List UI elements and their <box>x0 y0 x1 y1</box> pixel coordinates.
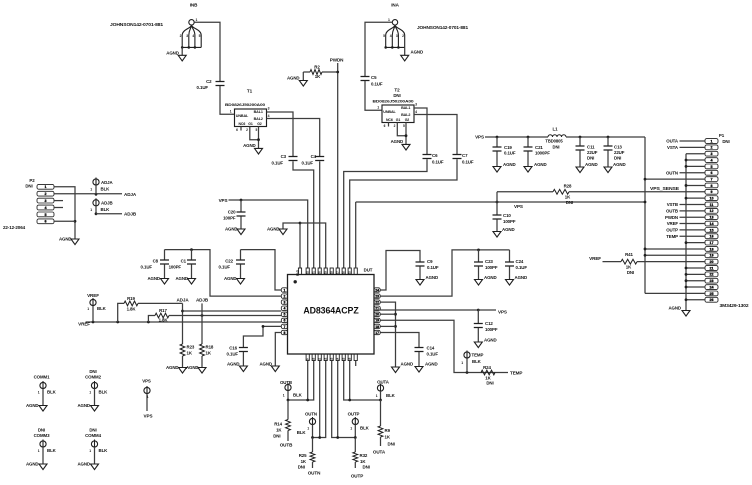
ground AGND (PAD) <box>279 229 287 235</box>
resistor R17 1.8K <box>148 316 155 323</box>
svg-text:AGND: AGND <box>287 76 300 81</box>
svg-text:AGND: AGND <box>26 403 39 408</box>
svg-text:22UF: 22UF <box>614 150 625 155</box>
svg-text:AGND: AGND <box>515 275 528 280</box>
svg-text:AGND: AGND <box>224 276 237 281</box>
wire C2 to T1 pin1 <box>220 86 235 114</box>
resistor R24 1K (DNI) <box>481 370 495 375</box>
capacitor C11 22UF (DNI) <box>579 137 581 146</box>
svg-text:BLK: BLK <box>99 390 109 395</box>
svg-text:0.1UF: 0.1UF <box>427 352 439 357</box>
svg-text:AGND: AGND <box>77 462 90 467</box>
svg-text:COMM4: COMM4 <box>85 433 102 438</box>
testpoint OUTN <box>309 418 315 424</box>
svg-text:R19: R19 <box>127 296 135 301</box>
svg-text:AGND: AGND <box>613 162 626 167</box>
svg-text:4: 4 <box>415 110 417 114</box>
svg-text:18: 18 <box>710 247 714 251</box>
svg-text:2: 2 <box>45 192 47 196</box>
svg-text:AGND: AGND <box>59 237 72 242</box>
svg-text:20: 20 <box>710 260 714 264</box>
svg-text:20: 20 <box>375 313 379 317</box>
svg-text:11: 11 <box>710 203 714 207</box>
svg-text:P2: P2 <box>29 178 35 183</box>
wire P1 pin5 to bus <box>686 165 705 167</box>
wire T2 BAL2 to C7 <box>414 115 457 155</box>
svg-text:BAL1: BAL1 <box>401 106 410 110</box>
svg-text:INA: INA <box>391 3 399 8</box>
svg-text:1000PF: 1000PF <box>535 151 550 156</box>
ground AGND (C22) <box>240 264 242 278</box>
svg-text:19: 19 <box>375 319 379 323</box>
svg-text:0.1UF: 0.1UF <box>504 151 516 156</box>
svg-text:AGND: AGND <box>166 365 179 370</box>
svg-text:OUTA: OUTA <box>373 450 386 455</box>
transformer T2 BD0826J50200A00 (DNI) <box>382 105 414 123</box>
inductor L1 TBD0805 (DNI) <box>548 135 566 137</box>
capacitor C12 100PF <box>477 310 479 323</box>
resistor R19 1.8K <box>118 303 124 322</box>
svg-text:3: 3 <box>396 34 398 38</box>
svg-text:BAL2: BAL2 <box>401 113 410 117</box>
svg-text:R9: R9 <box>385 428 391 433</box>
wire VPS rail <box>485 136 548 138</box>
svg-text:C8: C8 <box>153 259 159 264</box>
capacitor C9 0.1UF <box>416 262 425 266</box>
svg-text:100PF: 100PF <box>169 265 182 270</box>
resistor R28 1K (DNI) <box>497 191 553 193</box>
svg-text:VPS_SENSE: VPS_SENSE <box>650 186 679 191</box>
svg-text:2: 2 <box>711 146 713 150</box>
svg-text:OUTA: OUTA <box>666 139 679 144</box>
svg-text:DNI: DNI <box>614 156 621 161</box>
svg-text:AGND: AGND <box>225 227 238 232</box>
svg-text:0.1UF: 0.1UF <box>219 265 231 270</box>
svg-text:1: 1 <box>388 18 390 22</box>
capacitor C4 0.1UF <box>315 157 324 161</box>
capacitor C21 1000PF <box>527 137 529 147</box>
svg-text:100PF: 100PF <box>485 327 498 332</box>
resistor R25 1K (DNI) <box>312 438 314 453</box>
svg-text:C14: C14 <box>427 346 435 351</box>
wire ADJA to DUT pin4 <box>183 310 282 312</box>
svg-text:C7: C7 <box>462 153 468 158</box>
ground AGND (C23) <box>478 266 480 279</box>
svg-text:R17: R17 <box>159 308 167 313</box>
svg-text:AGND: AGND <box>259 362 272 367</box>
svg-text:1K: 1K <box>187 351 193 356</box>
svg-text:AGND: AGND <box>391 139 404 144</box>
resistor R23 1K <box>180 344 185 356</box>
svg-text:3: 3 <box>711 152 713 156</box>
svg-text:OUTA: OUTA <box>377 380 390 385</box>
svg-text:DNI: DNI <box>388 442 395 447</box>
svg-text:AGND: AGND <box>267 227 280 232</box>
svg-text:3: 3 <box>186 34 188 38</box>
capacitor C20 100PF <box>240 200 242 212</box>
svg-text:OUTB: OUTB <box>280 443 293 448</box>
wire P1 pin25 to VPS column <box>645 292 705 294</box>
svg-text:C10: C10 <box>503 213 511 218</box>
capacitor C10 100PF <box>496 201 499 204</box>
svg-text:L1: L1 <box>553 127 559 132</box>
wire P1 pin21 to bus <box>686 267 705 269</box>
ground AGND (C1) <box>191 264 193 278</box>
svg-text:5: 5 <box>45 213 47 217</box>
svg-text:BLK: BLK <box>47 390 57 395</box>
wire P1 ground bus <box>685 154 687 311</box>
svg-text:OUTP: OUTP <box>351 474 363 479</box>
svg-text:21: 21 <box>375 307 379 311</box>
ground AGND (C19) <box>496 151 498 166</box>
wire P2 pin1 bus <box>54 187 75 239</box>
wire L1 to P1 column <box>566 136 645 138</box>
svg-text:C4: C4 <box>311 154 317 159</box>
svg-text:1: 1 <box>377 105 379 109</box>
ground AGND (C12) <box>477 328 479 342</box>
ground AGND (C8) <box>164 264 166 278</box>
wire DUT pin1 to C22 <box>241 250 282 290</box>
ground AGND (P1) <box>682 311 690 317</box>
svg-text:3: 3 <box>268 107 270 111</box>
svg-text:C2: C2 <box>206 79 212 84</box>
svg-text:C21: C21 <box>535 145 543 150</box>
wire P1 pin19 <box>645 254 705 256</box>
svg-text:G1: G1 <box>396 118 401 122</box>
wire DUT pin19 to TEMP <box>380 320 508 372</box>
testpoint TEMP <box>464 352 470 358</box>
svg-text:2: 2 <box>180 34 182 38</box>
svg-text:BD0826J50200A00: BD0826J50200A00 <box>373 98 415 103</box>
svg-text:4: 4 <box>192 34 194 38</box>
wire INA to C5 <box>365 22 392 76</box>
wire DUT pin2 to C8/C1 <box>165 250 282 297</box>
wire DUT pin stub <box>355 361 357 367</box>
svg-text:OUTN: OUTN <box>305 412 317 417</box>
svg-text:BAL2: BAL2 <box>254 117 263 121</box>
svg-text:OUTP: OUTP <box>666 228 678 233</box>
svg-text:0.1UF: 0.1UF <box>141 265 153 270</box>
svg-text:1: 1 <box>283 288 285 292</box>
svg-text:DNI: DNI <box>627 270 634 275</box>
svg-text:C20: C20 <box>228 210 236 215</box>
svg-text:ADJB: ADJB <box>124 212 137 217</box>
svg-text:0.1UF: 0.1UF <box>197 85 209 90</box>
wire DUT pin17 to C14 <box>380 333 419 348</box>
wire T2 BAL1 to C6 <box>414 108 427 154</box>
ground AGND (C13) <box>607 150 609 167</box>
svg-text:0.1UF: 0.1UF <box>432 160 444 165</box>
svg-text:COMM1: COMM1 <box>34 375 51 380</box>
wire DUT pin22 to AGND column <box>380 302 395 367</box>
svg-text:DNI: DNI <box>553 145 560 150</box>
svg-text:OUTB: OUTB <box>666 208 678 213</box>
svg-text:AGND: AGND <box>186 365 199 370</box>
ground AGND (T1) <box>255 148 263 154</box>
wire DUT pins 11,12 to OUTN <box>319 361 321 438</box>
svg-text:17: 17 <box>710 241 714 245</box>
svg-text:21: 21 <box>710 266 714 270</box>
ground AGND (pin8) <box>271 366 279 372</box>
svg-text:BD0826J50200A00: BD0826J50200A00 <box>225 102 266 107</box>
svg-text:1: 1 <box>461 361 463 365</box>
svg-text:3M3429-1302: 3M3429-1302 <box>720 303 750 308</box>
wire DUT pins 9,10 to OUTB <box>307 361 309 401</box>
wire VPS column to DUT top <box>644 137 646 293</box>
svg-text:BLK: BLK <box>472 359 482 364</box>
wire P2 pin4 stub <box>54 207 63 209</box>
wire P1 pin24 to bus <box>686 286 705 288</box>
svg-text:1K: 1K <box>315 74 321 79</box>
svg-text:AGND: AGND <box>401 362 414 367</box>
svg-text:12: 12 <box>710 209 714 213</box>
svg-text:P1: P1 <box>719 133 725 138</box>
svg-text:DNI: DNI <box>393 93 400 98</box>
DUT left pins 1-8 <box>281 288 287 292</box>
wire DUT PAD to AGND <box>283 223 300 269</box>
wire INB to C2 <box>194 22 220 81</box>
svg-text:AGND: AGND <box>77 403 90 408</box>
svg-text:R25: R25 <box>299 453 307 458</box>
wire T1 BAL1 to C3 <box>267 112 294 156</box>
capacitor C2 0.1UF <box>216 82 225 86</box>
svg-text:T2: T2 <box>394 88 400 93</box>
DUT top pins 32-25 <box>306 268 309 275</box>
svg-text:VPS: VPS <box>475 135 484 140</box>
svg-text:6: 6 <box>45 220 47 224</box>
svg-text:UNBAL: UNBAL <box>236 114 249 118</box>
wire PWDN to DUT <box>337 63 339 269</box>
wire P1 pin10 to bus <box>686 197 705 199</box>
svg-text:22-12-2064: 22-12-2064 <box>3 225 26 230</box>
svg-text:R23: R23 <box>187 345 195 350</box>
svg-text:1K: 1K <box>276 428 282 433</box>
testpoint ADJB <box>93 200 99 206</box>
svg-text:NC6: NC6 <box>386 118 393 122</box>
svg-text:C11: C11 <box>587 145 595 150</box>
capacitor C23 100PF <box>478 250 480 262</box>
wire P1 pin8 to bus <box>686 184 705 186</box>
svg-text:ADJA: ADJA <box>101 180 113 185</box>
connector INA (SMA) <box>392 20 397 25</box>
svg-text:1.8K: 1.8K <box>159 318 169 323</box>
svg-text:DNI: DNI <box>273 434 280 439</box>
svg-text:26: 26 <box>710 298 714 302</box>
svg-text:10: 10 <box>710 197 714 201</box>
DUT right pins 24-17 <box>374 288 380 292</box>
capacitor C19 0.1UF <box>496 137 498 147</box>
svg-text:C16: C16 <box>229 346 237 351</box>
wire P1 pin18 <box>645 248 705 250</box>
ground AGND (R23) <box>182 356 184 368</box>
svg-text:7: 7 <box>283 325 285 329</box>
svg-text:0.1UF: 0.1UF <box>371 82 383 87</box>
svg-text:C12: C12 <box>485 321 493 326</box>
wire ADJB <box>201 303 203 344</box>
svg-text:0.1UF: 0.1UF <box>272 161 284 166</box>
svg-text:AGND: AGND <box>484 338 497 343</box>
wire C5 to T2 pin1 <box>365 81 382 110</box>
ground AGND (C14) <box>418 352 420 367</box>
svg-text:R28: R28 <box>564 184 572 189</box>
svg-text:ADJB: ADJB <box>101 201 113 206</box>
capacitor C16 0.1UF <box>239 348 248 352</box>
svg-text:AGND: AGND <box>668 306 681 311</box>
capacitor C22 0.1UF <box>240 250 242 260</box>
svg-text:2: 2 <box>283 294 285 298</box>
wire DUT pin18 stub <box>380 325 395 327</box>
wire P1 pin26 to bus <box>686 299 705 301</box>
svg-text:24: 24 <box>375 288 379 292</box>
svg-text:1K: 1K <box>626 265 632 270</box>
svg-text:1: 1 <box>230 109 232 113</box>
svg-text:0.1UF: 0.1UF <box>516 265 528 270</box>
svg-text:R2: R2 <box>314 64 320 69</box>
svg-text:VPS: VPS <box>142 379 151 384</box>
ground AGND (C24) <box>509 266 511 279</box>
svg-text:7: 7 <box>711 177 713 181</box>
svg-text:1: 1 <box>376 394 378 398</box>
svg-text:OUTN: OUTN <box>666 170 678 175</box>
svg-text:22: 22 <box>375 300 379 304</box>
svg-text:TEMP: TEMP <box>472 353 484 358</box>
svg-text:1K: 1K <box>385 435 391 440</box>
svg-text:AGND: AGND <box>534 162 547 167</box>
resistor R32 1K (DNI) <box>354 438 356 453</box>
svg-text:OUTB: OUTB <box>280 380 292 385</box>
svg-text:3: 3 <box>415 103 417 107</box>
svg-text:DNI: DNI <box>89 369 96 374</box>
wire P1 pin4 to bus <box>686 159 705 161</box>
wire C7 to DUT pin <box>350 159 457 268</box>
svg-text:16: 16 <box>710 235 714 239</box>
svg-text:AGND: AGND <box>26 462 39 467</box>
svg-text:5: 5 <box>711 165 713 169</box>
connector INB (SMA) <box>189 20 194 25</box>
testpoint OUTP <box>352 418 358 424</box>
svg-text:15: 15 <box>710 228 714 232</box>
svg-text:DNI: DNI <box>722 139 729 144</box>
capacitor C1 100PF <box>191 250 193 260</box>
svg-text:ADJA: ADJA <box>176 298 189 303</box>
svg-text:C19: C19 <box>504 145 512 150</box>
svg-text:UNBAL: UNBAL <box>383 110 396 114</box>
svg-text:AD8364ACPZ: AD8364ACPZ <box>303 306 359 316</box>
wire VREF net <box>86 321 282 323</box>
svg-text:C9: C9 <box>427 259 433 264</box>
wire DUT pin21 VPS <box>380 308 478 310</box>
svg-text:5: 5 <box>283 313 285 317</box>
svg-text:1: 1 <box>196 18 198 22</box>
svg-text:1: 1 <box>711 139 713 143</box>
svg-text:1: 1 <box>87 307 89 311</box>
svg-text:AGND: AGND <box>502 227 515 232</box>
svg-text:JOHNSON142-0701-881: JOHNSON142-0701-881 <box>110 22 164 27</box>
svg-text:NC6: NC6 <box>239 122 246 126</box>
svg-text:ADJA: ADJA <box>124 192 137 197</box>
svg-text:8: 8 <box>711 184 713 188</box>
svg-text:3: 3 <box>45 199 47 203</box>
svg-text:17: 17 <box>375 331 379 335</box>
svg-text:AGND: AGND <box>227 362 240 367</box>
svg-text:AGND: AGND <box>585 162 598 167</box>
capacitor C8 0.1UF <box>164 250 166 260</box>
ground AGND (C16) <box>242 352 244 366</box>
wire DUT pins 15,16 to OUTA <box>344 361 381 401</box>
wire C6 to DUT pin <box>344 159 427 268</box>
ground AGND (right column) <box>392 367 400 373</box>
svg-text:DNI: DNI <box>486 381 493 386</box>
testpoint OUTB <box>285 384 291 390</box>
wire ADJA net (P2) <box>95 185 97 194</box>
svg-text:DNI: DNI <box>25 184 32 189</box>
wire DUT pin23 to C23/C24 <box>380 250 509 296</box>
svg-text:22UF: 22UF <box>587 150 598 155</box>
svg-text:100PF: 100PF <box>223 216 236 221</box>
svg-text:19: 19 <box>710 254 714 258</box>
testpoint VREF <box>90 299 96 305</box>
testpoint ADJA <box>93 179 99 185</box>
svg-text:1K: 1K <box>360 459 366 464</box>
svg-text:DNI: DNI <box>38 428 45 433</box>
svg-text:G2: G2 <box>405 118 410 122</box>
svg-text:VREF: VREF <box>667 221 679 226</box>
wire P2 pin6 <box>54 220 75 222</box>
capacitor C13 22UF (DNI) <box>607 137 609 146</box>
svg-text:BLK: BLK <box>386 393 396 398</box>
resistor R9 1K (DNI) <box>380 400 382 426</box>
svg-text:6: 6 <box>711 171 713 175</box>
svg-text:R18: R18 <box>206 345 214 350</box>
resistor R14 1K (DNI) <box>287 400 289 420</box>
ground AGND (C11) <box>579 150 581 167</box>
svg-text:VSTA: VSTA <box>667 145 679 150</box>
DUT bottom pins 9-16 <box>306 354 309 361</box>
svg-text:BLK: BLK <box>99 448 109 453</box>
svg-text:25: 25 <box>710 292 714 296</box>
wire P1 pin7 VPS <box>645 178 705 180</box>
svg-text:BLK: BLK <box>297 430 307 435</box>
svg-text:1: 1 <box>89 449 91 453</box>
wire C3 to DUT pin <box>293 161 314 268</box>
svg-text:C6: C6 <box>432 153 438 158</box>
ground AGND (R2) <box>302 72 304 81</box>
wire DUT pin24 to C9 <box>380 251 420 291</box>
svg-text:TEMP: TEMP <box>666 234 678 239</box>
svg-text:1: 1 <box>283 394 285 398</box>
svg-text:C3: C3 <box>281 154 287 159</box>
svg-text:BLK: BLK <box>101 207 111 212</box>
wire P1 pin23 to bus <box>686 280 705 282</box>
ground AGND (T2) <box>402 144 410 150</box>
svg-text:DNI: DNI <box>298 465 305 470</box>
wire DUT pin7 to C16 <box>243 326 281 347</box>
svg-text:6: 6 <box>283 319 285 323</box>
svg-text:AGND: AGND <box>147 276 160 281</box>
ground AGND (C10) <box>496 219 498 231</box>
capacitor C14 0.1UF <box>415 348 424 352</box>
svg-text:AGND: AGND <box>425 362 438 367</box>
svg-text:C5: C5 <box>371 75 377 80</box>
capacitor C6 0.1UF <box>423 155 432 159</box>
svg-text:C23: C23 <box>485 259 493 264</box>
wire P1 pin17 to bus <box>686 242 705 244</box>
wire T1 BAL2 to C4 <box>267 119 320 157</box>
svg-text:5: 5 <box>199 34 201 38</box>
svg-text:1: 1 <box>38 391 40 395</box>
svg-text:1: 1 <box>307 427 309 431</box>
ground AGND (C21) <box>527 151 529 166</box>
